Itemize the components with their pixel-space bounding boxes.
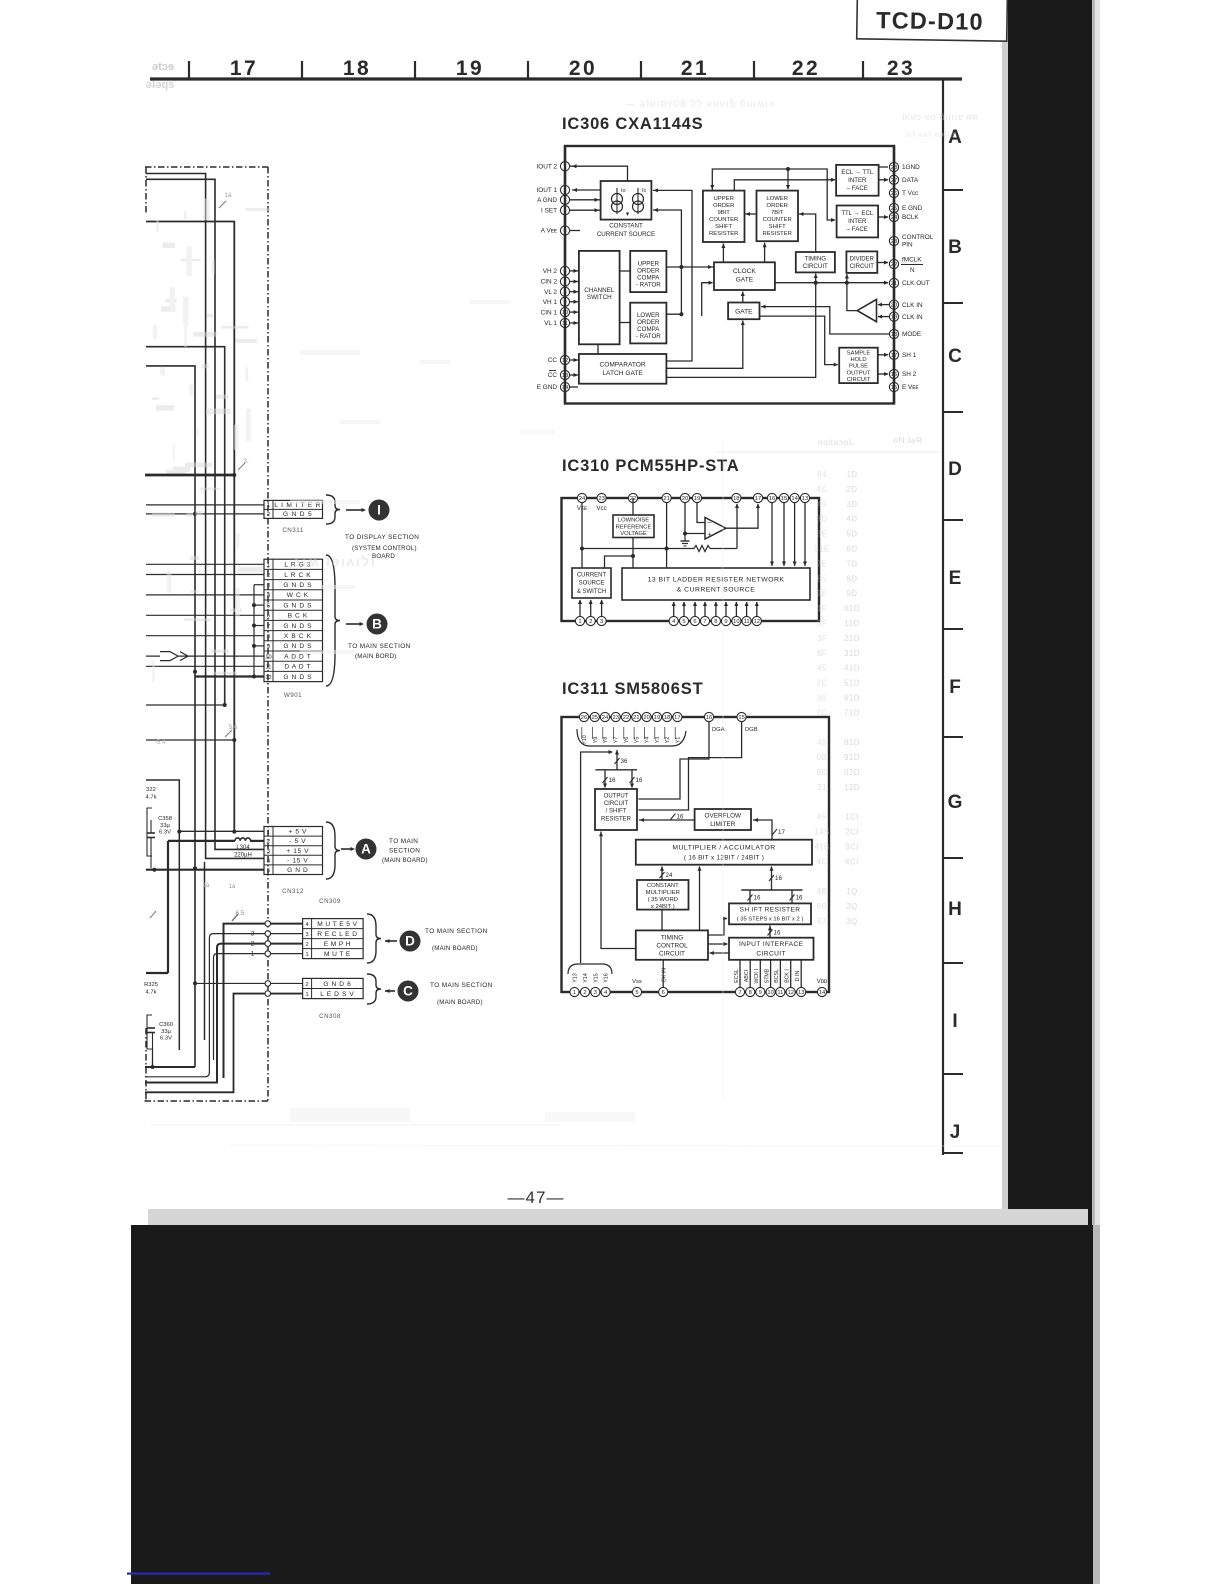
svg-text:(MAIN BOARD): (MAIN BOARD) xyxy=(382,857,428,864)
svg-text:G N D 6: G N D 6 xyxy=(323,981,351,988)
wire latch to gate xyxy=(666,321,744,369)
svg-text:4.7k: 4.7k xyxy=(146,990,157,996)
wire pins16-13 to ladder xyxy=(770,502,807,566)
svg-text:3: 3 xyxy=(594,990,597,996)
handwritten marks xyxy=(150,459,251,921)
svg-text:5.6: 5.6 xyxy=(229,725,238,731)
svg-text:4: 4 xyxy=(267,858,270,864)
svg-text:6B: 6B xyxy=(817,902,828,911)
svg-text:16: 16 xyxy=(775,875,782,882)
svg-text:F: F xyxy=(949,677,961,698)
wire between counters xyxy=(745,212,757,216)
svg-text:SHIFT: SHIFT xyxy=(715,224,732,230)
svg-text:LOWER: LOWER xyxy=(766,196,788,202)
connector CN308 xyxy=(303,978,364,998)
svg-text:7E: 7E xyxy=(817,559,828,568)
svg-text:35: 35 xyxy=(817,694,827,703)
svg-text:PIN: PIN xyxy=(902,242,913,249)
wire numbers 3 2 1 xyxy=(251,931,255,958)
svg-text:RESISTER: RESISTER xyxy=(709,231,738,237)
svg-text:16: 16 xyxy=(774,930,781,937)
wire multiplier to shift bus xyxy=(769,866,782,890)
svg-text:COMPA: COMPA xyxy=(637,326,660,333)
node D (to main section) xyxy=(400,931,421,952)
svg-text:Y9: Y9 xyxy=(593,737,599,744)
svg-text:41B: 41B xyxy=(814,843,829,852)
brace CN311 xyxy=(326,495,340,524)
svg-text:CURRENT: CURRENT xyxy=(577,573,607,579)
svg-text:4D: 4D xyxy=(847,515,858,524)
svg-text:22: 22 xyxy=(792,57,820,80)
wire pin20 to op-amp plus xyxy=(683,502,705,536)
svg-text:W901: W901 xyxy=(284,692,302,699)
wire clock gate to upper counter xyxy=(721,244,725,263)
svg-text:- 5 V: - 5 V xyxy=(289,838,306,845)
wire input interface to shift xyxy=(768,926,781,938)
svg-text:5: 5 xyxy=(682,619,685,625)
capacitor C358 xyxy=(147,808,172,868)
svg-text:5: 5 xyxy=(267,603,270,609)
svg-text:7C: 7C xyxy=(817,708,828,717)
svg-text:23: 23 xyxy=(612,715,618,721)
wire pin28 stub xyxy=(879,166,888,168)
svg-text:OUTPUT: OUTPUT xyxy=(847,370,871,376)
svg-text:11: 11 xyxy=(266,665,272,671)
svg-text:1: 1 xyxy=(267,563,270,569)
wire V5 xyxy=(146,347,227,707)
block gate xyxy=(728,303,759,320)
svg-text:CN311: CN311 xyxy=(282,527,303,534)
svg-text:& CURRENT SOURCE: & CURRENT SOURCE xyxy=(677,587,756,594)
svg-text:IC310 PCM55HP-STA: IC310 PCM55HP-STA xyxy=(562,457,739,475)
IC311 top pins 15-26 xyxy=(579,712,746,721)
svg-text:TO DISPLAY SECTION: TO DISPLAY SECTION xyxy=(345,534,419,541)
IC311 outer box xyxy=(562,717,830,992)
svg-text:6.3V: 6.3V xyxy=(160,1036,172,1042)
wire H705 xyxy=(146,704,225,706)
svg-text:- RATOR: - RATOR xyxy=(636,333,661,340)
svg-text:D A D T: D A D T xyxy=(284,664,311,671)
svg-text:Y13: Y13 xyxy=(573,973,579,983)
svg-text:VL 2: VL 2 xyxy=(544,289,557,296)
svg-text:16: 16 xyxy=(636,777,643,784)
svg-text:C: C xyxy=(948,346,962,367)
model label TCD-D10 xyxy=(857,0,1008,41)
wire bottom pins to current source xyxy=(578,600,604,617)
svg-text:G N D S: G N D S xyxy=(283,602,312,609)
svg-text:- RATOR: - RATOR xyxy=(636,282,661,289)
svg-text:9D: 9D xyxy=(847,589,858,598)
svg-text:23: 23 xyxy=(887,57,915,80)
wire latch to constant current upper xyxy=(653,188,692,361)
svg-text:E: E xyxy=(949,568,962,589)
svg-text:Y4: Y4 xyxy=(645,737,651,744)
svg-text:( 35 WORD: ( 35 WORD xyxy=(648,897,678,903)
block clock gate xyxy=(714,262,775,290)
svg-text:CIRCUIT: CIRCUIT xyxy=(756,950,786,957)
wire shift fan bar xyxy=(741,889,802,891)
svg-text:14: 14 xyxy=(819,990,826,996)
wire pins 12 13 arrows xyxy=(570,358,579,377)
svg-text:17: 17 xyxy=(755,496,761,502)
svg-text:16: 16 xyxy=(796,895,803,902)
svg-text:41D: 41D xyxy=(844,664,860,673)
op-amp U-IC306 outer box xyxy=(565,146,894,404)
svg-text:6: 6 xyxy=(267,614,270,620)
label to main section A xyxy=(382,838,428,864)
brace CN309 xyxy=(367,914,381,963)
svg-text:A Vᴇᴇ: A Vᴇᴇ xyxy=(541,228,557,235)
wire TTL-ECL to pin24 BCLK xyxy=(878,215,888,219)
svg-text:CN309: CN309 xyxy=(319,898,341,905)
svg-text:17: 17 xyxy=(778,829,785,836)
svg-text:ORDER: ORDER xyxy=(637,319,660,326)
svg-text:Io: Io xyxy=(621,188,626,194)
svg-text:11D: 11D xyxy=(844,619,859,628)
node C (to main section) xyxy=(398,981,419,1002)
resistor (feedback) xyxy=(667,504,739,552)
svg-text:COUNTER: COUNTER xyxy=(763,217,792,223)
svg-text:36: 36 xyxy=(621,758,628,765)
svg-text:WCK I: WCK I xyxy=(754,969,760,984)
svg-text:ORDER: ORDER xyxy=(713,203,734,209)
svg-text:67: 67 xyxy=(817,917,827,926)
svg-text:322: 322 xyxy=(146,787,156,793)
wire output fan bar xyxy=(595,769,637,771)
svg-text:E GND: E GND xyxy=(537,384,558,391)
svg-text:CLOCK: CLOCK xyxy=(733,268,756,275)
wire channel to latch xyxy=(597,344,599,354)
svg-text:24: 24 xyxy=(666,872,673,879)
svg-text:10: 10 xyxy=(265,654,271,660)
wire W901 pin1 xyxy=(146,563,264,565)
svg-text:21: 21 xyxy=(633,715,639,721)
svg-text:10: 10 xyxy=(733,619,739,625)
svg-text:45: 45 xyxy=(817,738,827,747)
svg-text:CIRCUIT: CIRCUIT xyxy=(604,801,629,807)
brace CN312 xyxy=(326,822,340,879)
svg-text:5D: 5D xyxy=(847,530,858,539)
wire ECL-TTL to pin27 DATA xyxy=(879,178,889,182)
svg-text:11: 11 xyxy=(777,990,783,996)
wire H740 xyxy=(146,738,236,742)
svg-text:E GND: E GND xyxy=(902,205,923,212)
wire W901 pin10 (ADDT) xyxy=(146,652,264,661)
svg-text:2: 2 xyxy=(306,982,309,988)
wire gate to sample hold xyxy=(760,316,839,367)
svg-text:DATA: DATA xyxy=(902,177,919,184)
svg-text:Y1: Y1 xyxy=(675,737,681,744)
svg-text:W C K: W C K xyxy=(287,592,309,599)
svg-text:B C K: B C K xyxy=(288,613,308,620)
svg-text:N: N xyxy=(910,267,915,274)
svg-text:fMCLK: fMCLK xyxy=(902,257,922,264)
arrow to C xyxy=(385,989,395,993)
svg-text:A D D T: A D D T xyxy=(284,653,311,660)
svg-text:0B: 0B xyxy=(817,753,828,762)
svg-text:2Q: 2Q xyxy=(846,902,857,911)
wire CN312 pin1 (+5V) xyxy=(179,830,264,832)
label Vdd pin14 xyxy=(817,979,828,985)
svg-text:A: A xyxy=(361,842,371,857)
svg-text:Y16: Y16 xyxy=(604,973,610,983)
svg-text:CIRCUIT: CIRCUIT xyxy=(659,950,685,957)
svg-text:E Vᴇᴇ: E Vᴇᴇ xyxy=(902,384,919,391)
wire multiplier to overflow xyxy=(753,818,785,840)
svg-text:17: 17 xyxy=(674,715,680,721)
svg-text:MODE: MODE xyxy=(902,331,921,338)
capacitor C360 xyxy=(147,1015,173,1049)
svg-text:T Vᴄᴄ: T Vᴄᴄ xyxy=(902,190,919,197)
svg-text:17: 17 xyxy=(230,57,258,80)
arrow to D xyxy=(385,939,397,943)
block 13bit ladder resister network xyxy=(622,568,810,600)
svg-text:+: + xyxy=(707,532,711,539)
svg-text:71D: 71D xyxy=(844,708,860,717)
svg-text:TIMING: TIMING xyxy=(804,256,826,263)
svg-text:9: 9 xyxy=(724,619,727,625)
svg-text:MULTIPLIER: MULTIPLIER xyxy=(646,890,680,896)
wire pin15 DGB to output circuit xyxy=(639,722,742,810)
block channel switch xyxy=(579,251,620,344)
wire V8 xyxy=(146,780,181,1050)
svg-text:I: I xyxy=(952,1011,957,1032)
svg-text:UPPER: UPPER xyxy=(714,196,734,202)
grid row letters A-J xyxy=(948,127,963,1143)
svg-text:7D: 7D xyxy=(847,559,858,568)
wire left rail to bus xyxy=(581,750,613,963)
block lower order 7bit counter shift resister xyxy=(757,191,799,242)
svg-text:2: 2 xyxy=(267,839,270,845)
svg-text:L R C K: L R C K xyxy=(284,572,311,579)
svg-text:( 35 STEPS x 16 BIT x 2 ): ( 35 STEPS x 16 BIT x 2 ) xyxy=(737,917,804,923)
block TTL-ECL interface xyxy=(837,206,879,238)
svg-text:R325: R325 xyxy=(144,982,158,988)
svg-text:+ 15 V: + 15 V xyxy=(286,848,309,855)
svg-text:20: 20 xyxy=(643,715,649,721)
svg-text:4C: 4C xyxy=(817,857,828,866)
svg-text:TO MAIN: TO MAIN xyxy=(389,838,418,845)
svg-text:ɔıʇ ǝʀʇ ʀǝʇʇǝ: ɔıʇ ǝʀʇ ʀǝʇʇǝ xyxy=(905,129,956,139)
IC310 bottom pins 1-12 xyxy=(575,616,761,625)
svg-text:2C: 2C xyxy=(817,679,828,688)
svg-text:13: 13 xyxy=(802,496,808,502)
svg-text:2: 2 xyxy=(251,941,255,948)
svg-text:12: 12 xyxy=(787,990,793,996)
block multiplier accumulator xyxy=(636,840,812,865)
wire pin21 to ladder xyxy=(665,502,669,568)
block sample hold pulse output circuit xyxy=(839,348,878,383)
grid column numbers 17-23 xyxy=(230,57,915,80)
title IC311 SM5806ST xyxy=(562,680,703,698)
IC311 bottom pins 1-14 xyxy=(570,987,827,996)
svg-text:3CI: 3CI xyxy=(845,843,859,852)
svg-text:5: 5 xyxy=(635,990,638,996)
block timing control circuit xyxy=(636,930,708,959)
brace W901 xyxy=(326,555,340,686)
svg-text:CLK OUT: CLK OUT xyxy=(902,280,930,287)
svg-text:9: 9 xyxy=(267,644,270,650)
svg-text:61D: 61D xyxy=(844,694,860,703)
label W901 xyxy=(284,692,302,699)
svg-text:4C: 4C xyxy=(817,485,828,494)
svg-text:IC306 CXA1144S: IC306 CXA1144S xyxy=(562,115,703,133)
wire op-amp out to pin17 xyxy=(726,504,760,529)
svg-text:31D: 31D xyxy=(844,649,860,658)
title IC306 CXA1144S xyxy=(562,115,703,133)
wire timing to multiplier xyxy=(697,866,701,930)
svg-text:INPUT INTERFACE: INPUT INTERFACE xyxy=(739,941,804,948)
node B (to main section) xyxy=(367,614,388,635)
wire bottom GND horizontal xyxy=(145,1065,195,1069)
svg-text:6.3V: 6.3V xyxy=(159,830,171,836)
svg-text:20: 20 xyxy=(682,496,688,502)
svg-text:OUTPUT: OUTPUT xyxy=(604,794,629,800)
svg-text:BCSL: BCSL xyxy=(774,969,780,983)
svg-text:B: B xyxy=(372,617,382,632)
arrow to I xyxy=(346,508,366,512)
wire CN309 pin1 (MUTE) xyxy=(214,954,303,1060)
svg-text:G: G xyxy=(948,792,963,813)
wire pin19 to op-amp minus xyxy=(697,502,705,523)
svg-text:2: 2 xyxy=(267,573,270,579)
svg-text:12: 12 xyxy=(265,675,271,681)
svg-text:-5.4: -5.4 xyxy=(155,740,166,746)
svg-text:UPPER: UPPER xyxy=(638,261,660,268)
svg-text:SH IFT RESISTER: SH IFT RESISTER xyxy=(740,907,801,914)
svg-text:19: 19 xyxy=(456,57,484,80)
wire input pins to interface xyxy=(740,960,801,988)
label CN309 xyxy=(319,898,341,905)
svg-text:33µ: 33µ xyxy=(161,1029,171,1035)
wire upper counter to ECL-TTL xyxy=(734,178,835,191)
svg-text:CONSTANT: CONSTANT xyxy=(647,883,679,889)
svg-text:2: 2 xyxy=(589,619,592,625)
wire V2 (-15V feed) xyxy=(146,174,264,859)
svg-text:RESISTER: RESISTER xyxy=(762,231,791,237)
wire latch to timing circuit xyxy=(666,274,817,378)
svg-text:9BIT: 9BIT xyxy=(717,210,730,216)
svg-text:I: I xyxy=(377,503,381,518)
svg-text:STMB: STMB xyxy=(764,968,770,983)
svg-text:G N D S: G N D S xyxy=(283,623,312,630)
svg-text:VH 1: VH 1 xyxy=(543,299,558,306)
boundary crossing circles CN309 xyxy=(265,921,271,957)
wire sample hold to pin16 xyxy=(878,372,889,376)
svg-text:220µH: 220µH xyxy=(234,853,252,859)
brace CN308 xyxy=(367,974,381,1004)
svg-text:CIN 2: CIN 2 xyxy=(541,279,558,286)
svg-text:CONTROL: CONTROL xyxy=(902,234,934,241)
svg-text:IC311 SM5806ST: IC311 SM5806ST xyxy=(562,680,703,698)
svg-text:16: 16 xyxy=(677,814,684,821)
IC306 right pins 15-28 xyxy=(889,162,933,391)
IC306 left pin stem xyxy=(564,146,566,404)
svg-text:CURRENT SOURCE: CURRENT SOURCE xyxy=(597,231,655,238)
wire pin4 to box xyxy=(570,208,601,212)
svg-text:DIVIDER: DIVIDER xyxy=(850,257,875,263)
svg-text:CIRCUIT: CIRCUIT xyxy=(847,377,871,383)
svg-text:13 BIT LADDER RESISTER NETW: 13 BIT LADDER RESISTER NETWORK xyxy=(648,577,785,584)
wire MODE to gate xyxy=(761,305,889,334)
block upper order comparator xyxy=(630,251,666,292)
inductor L304 xyxy=(168,838,264,841)
block comparator latch gate xyxy=(579,354,667,384)
op-amp IC310 xyxy=(705,518,726,540)
svg-text:19: 19 xyxy=(654,715,660,721)
svg-text:/ SHIFT: / SHIFT xyxy=(606,809,627,815)
wire divider to pin22 xyxy=(877,260,888,264)
block overflow limiter xyxy=(695,809,751,830)
wire CN308 pin2 (GND6) xyxy=(195,982,303,984)
svg-text:Vᴄᴄ: Vᴄᴄ xyxy=(596,505,606,512)
svg-text:B: B xyxy=(948,237,962,258)
svg-text:L E D S V: L E D S V xyxy=(320,991,354,998)
wire CLK OUT rail xyxy=(702,281,889,316)
wire fan to output circuit 1 xyxy=(603,770,616,788)
svg-text:3F: 3F xyxy=(817,634,827,643)
svg-text:TO MAIN SECTION: TO MAIN SECTION xyxy=(348,643,411,650)
svg-text:10: 10 xyxy=(767,990,773,996)
label to main section B xyxy=(348,643,411,660)
svg-text:2: 2 xyxy=(267,512,270,518)
svg-text:Y6: Y6 xyxy=(624,737,630,744)
svg-text:BCLK: BCLK xyxy=(902,214,919,221)
svg-text:21: 21 xyxy=(663,496,669,502)
svg-text:1: 1 xyxy=(578,619,581,625)
wire timing to lower counter xyxy=(798,212,816,252)
svg-text:1: 1 xyxy=(306,952,309,958)
svg-text:— ǝʇɐלל 08ץסו ʀʀɐוƃ ƃuıʍıʌ: — ǝʇɐלל 08ץסו ʀʀɐוƃ ƃuıʍıʌ xyxy=(625,98,775,110)
wire fan to shift resister 2 xyxy=(790,890,803,903)
svg-text:G N D 5: G N D 5 xyxy=(283,511,312,518)
svg-text:2E: 2E xyxy=(817,589,828,598)
wire pin2 from constant current source xyxy=(572,188,601,192)
svg-text:8F: 8F xyxy=(817,619,827,628)
wire clock gate to lower counter xyxy=(763,243,767,263)
svg-text:( 16 BIT x 12BIT / 24BIT ): ( 16 BIT x 12BIT / 24BIT ) xyxy=(684,855,764,862)
svg-text:3D: 3D xyxy=(847,500,858,509)
svg-text:(MAIN BORD): (MAIN BORD) xyxy=(355,653,396,660)
svg-text:(MAIN BOARD): (MAIN BOARD) xyxy=(432,945,478,952)
svg-text:3: 3 xyxy=(267,849,270,855)
grid row rule xyxy=(943,79,963,1155)
svg-text:SHIFT: SHIFT xyxy=(769,224,786,230)
wire channel to upper comparator xyxy=(620,270,631,272)
svg-text:1: 1 xyxy=(267,503,270,509)
svg-text:HOLD: HOLD xyxy=(850,357,866,363)
svg-text:–: – xyxy=(708,520,712,527)
svg-text:Y2: Y2 xyxy=(665,737,671,744)
svg-text:oN.ʇǝR: oN.ʇǝR xyxy=(893,435,922,445)
svg-text:51D: 51D xyxy=(844,679,860,688)
wire fan to output circuit 2 xyxy=(630,770,643,788)
block upper order 9bit counter shift resister xyxy=(703,191,745,242)
svg-text:SOURCE: SOURCE xyxy=(579,581,605,587)
wire W901 GND stub rail xyxy=(252,585,264,677)
svg-text:15: 15 xyxy=(738,715,744,721)
svg-text:& SWITCH: & SWITCH xyxy=(577,589,606,595)
svg-text:SECTION: SECTION xyxy=(389,848,420,855)
ground symbol xyxy=(681,534,690,547)
svg-text:CIN 1: CIN 1 xyxy=(541,309,558,316)
svg-text:TIMING: TIMING xyxy=(661,934,683,941)
svg-text:G N D S: G N D S xyxy=(283,674,312,681)
svg-text:TTL → ECL: TTL → ECL xyxy=(841,210,874,217)
wire pin20 to buffer xyxy=(878,303,890,307)
svg-text:VL 1: VL 1 xyxy=(544,320,557,327)
svg-text:ECSL: ECSL xyxy=(734,969,740,983)
